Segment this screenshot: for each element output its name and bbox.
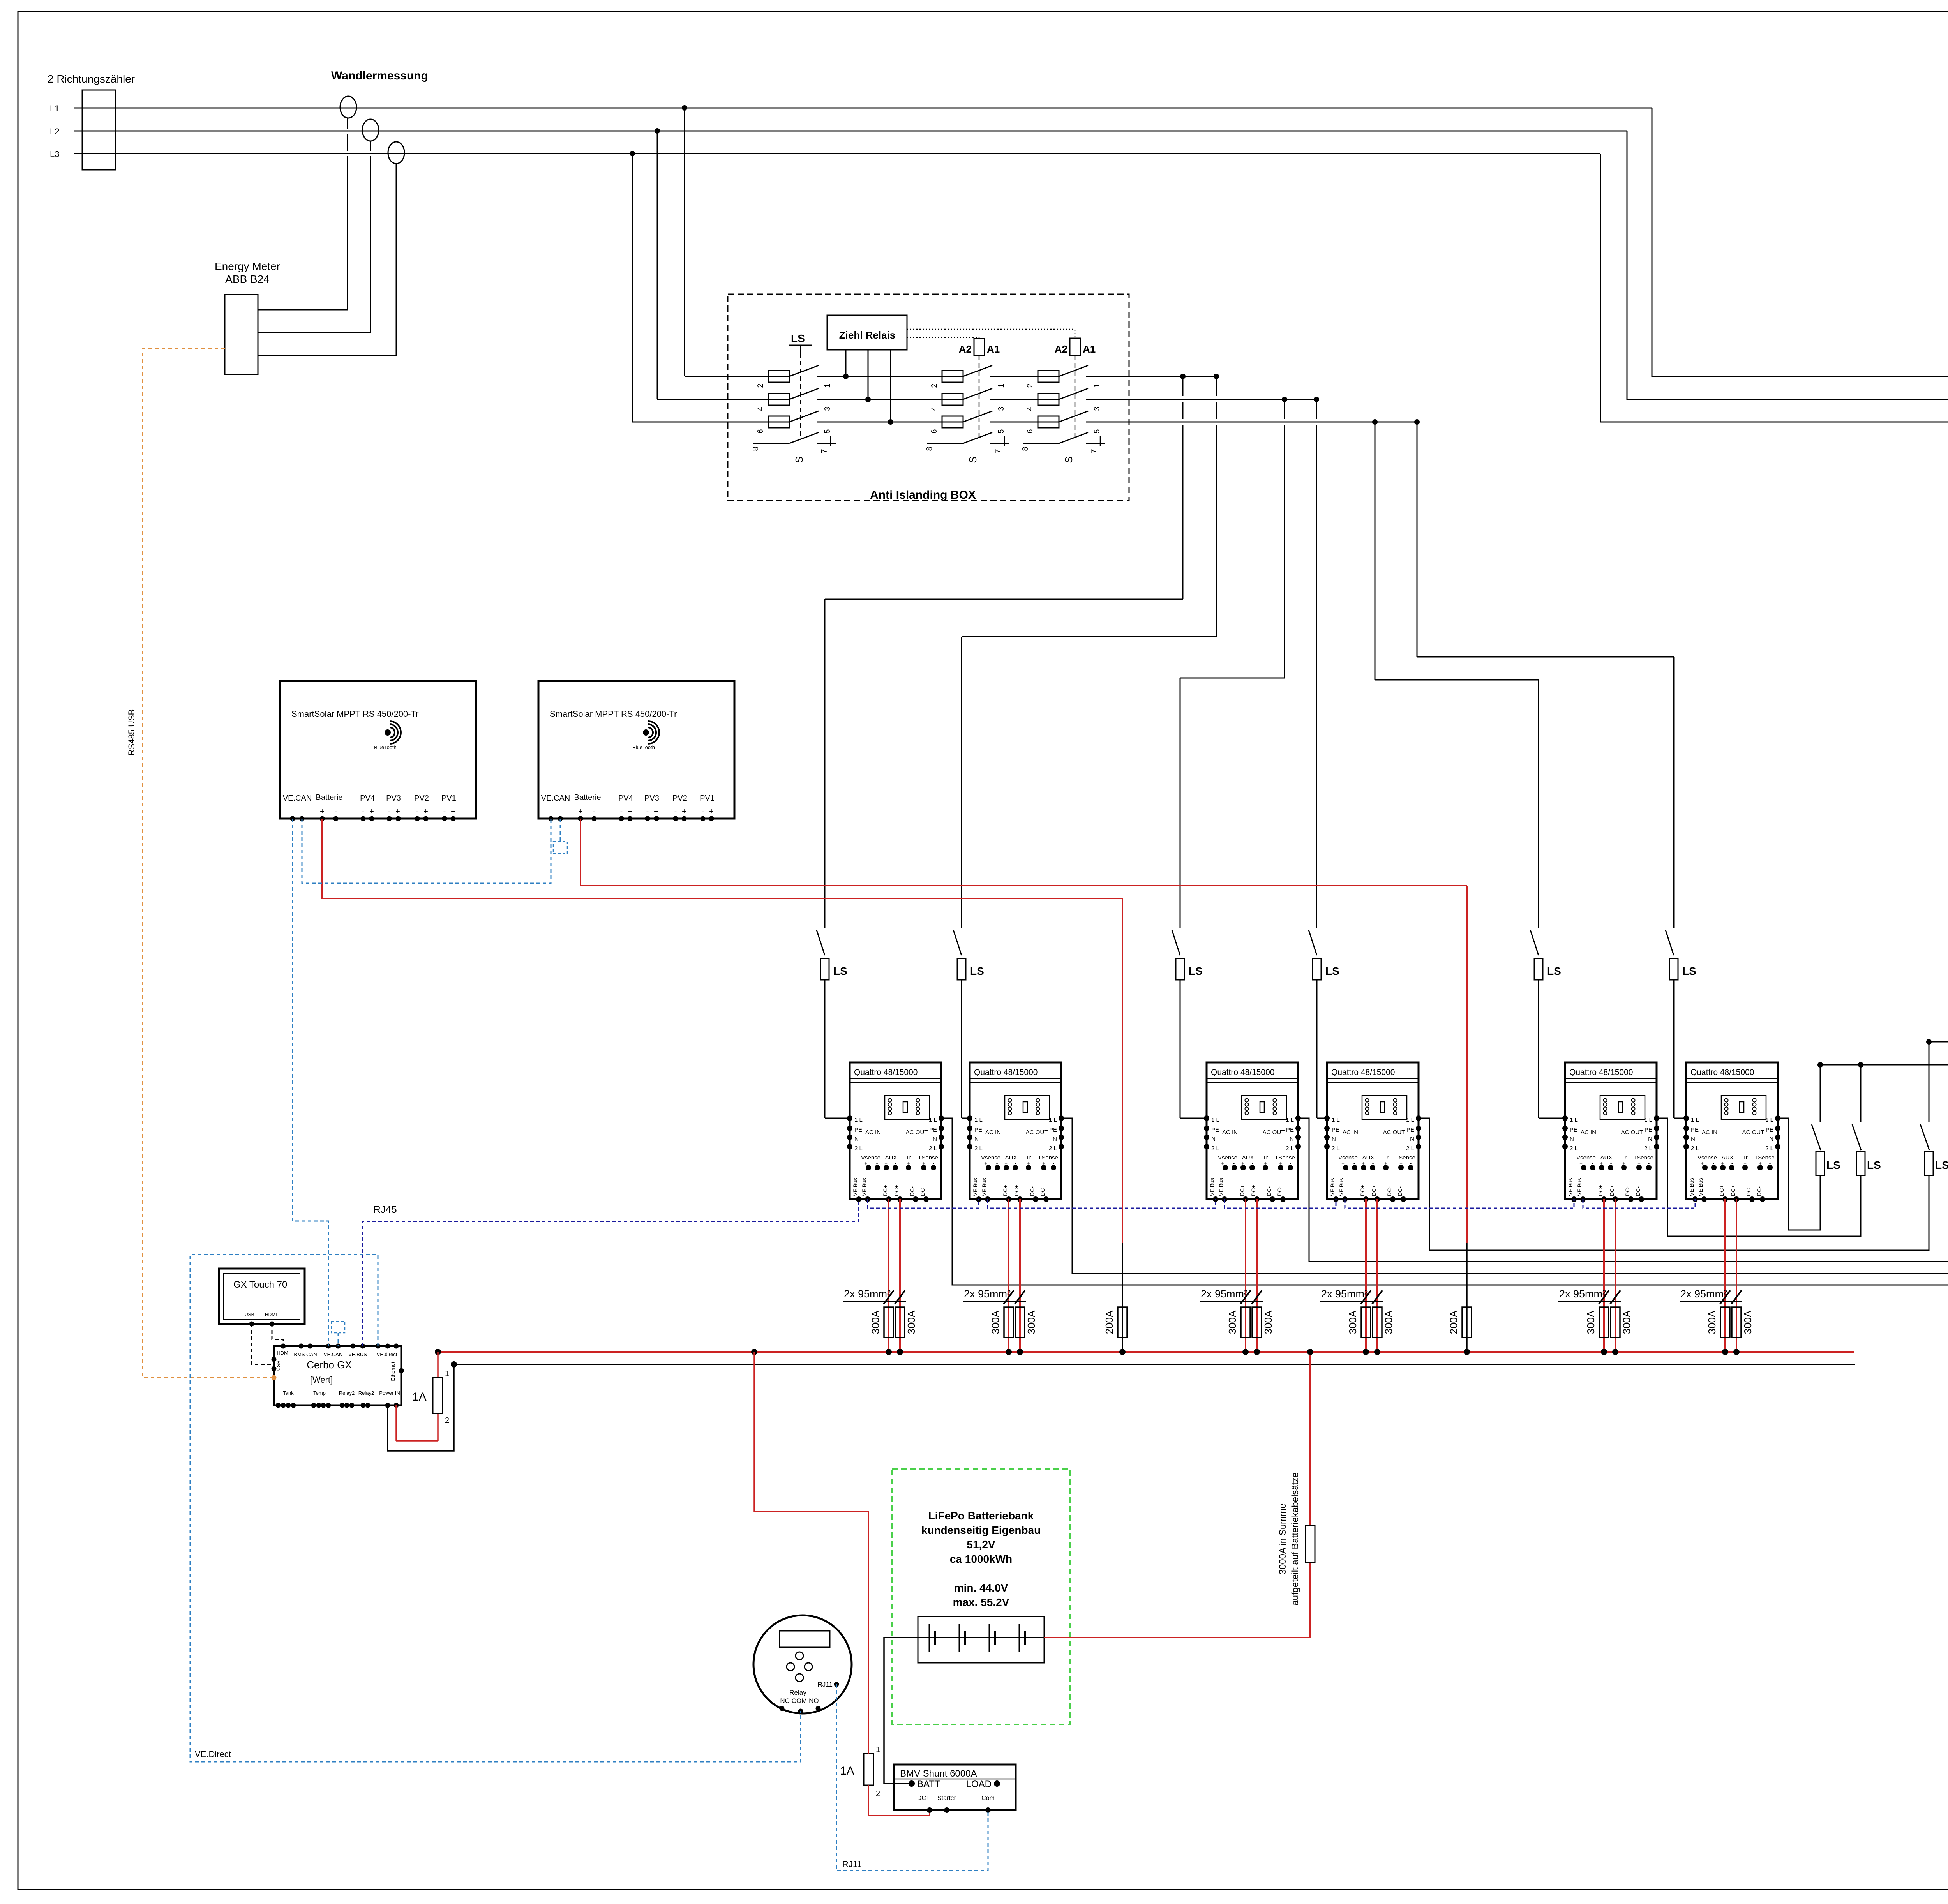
svg-text:5: 5 — [997, 429, 1006, 433]
svg-text:2 L: 2 L — [1765, 1145, 1773, 1152]
node junction U4 on AC-out bus — [1926, 1039, 1932, 1045]
svg-text:VE.Bus: VE.Bus — [1209, 1178, 1215, 1196]
battery plates — [929, 1624, 930, 1652]
svg-text:HDMI: HDMI — [265, 1312, 277, 1317]
svg-text:VE.Bus: VE.Bus — [1689, 1178, 1695, 1196]
svg-text:DC+: DC+ — [1239, 1185, 1245, 1196]
svg-text:N: N — [1053, 1136, 1057, 1142]
svg-text:VE.BUS: VE.BUS — [348, 1352, 367, 1357]
wire CT2 to energy meter — [370, 141, 371, 151]
svg-text:PV3: PV3 — [386, 794, 401, 803]
svg-text:VE.Bus: VE.Bus — [852, 1178, 858, 1196]
svg-text:RJ45: RJ45 — [373, 1203, 397, 1215]
svg-text:6: 6 — [930, 429, 939, 433]
U5 bottom pins — [1571, 1196, 1577, 1202]
svg-text:2x 95mm²: 2x 95mm² — [1680, 1288, 1727, 1300]
switch blade pole 3 — [963, 388, 992, 399]
svg-text:Temp: Temp — [313, 1390, 326, 1396]
svg-text:Quattro 48/15000: Quattro 48/15000 — [1211, 1068, 1274, 1077]
svg-text:LOAD: LOAD — [966, 1779, 992, 1789]
svg-text:N: N — [933, 1136, 937, 1142]
svg-text:Quattro 48/15000: Quattro 48/15000 — [1690, 1068, 1754, 1077]
svg-text:3: 3 — [997, 406, 1006, 411]
svg-text:VE.Bus: VE.Bus — [981, 1178, 987, 1196]
svg-text:N: N — [1290, 1136, 1294, 1142]
svg-text:Batterie: Batterie — [574, 793, 601, 802]
fuse 3000A — [1306, 1526, 1315, 1562]
node junction L2 to anti islanding — [655, 128, 660, 134]
breaker LS blade at x3949 — [1530, 930, 1539, 955]
svg-text:VE.Bus: VE.Bus — [1338, 1178, 1345, 1196]
switch blade pole 3 — [789, 388, 819, 399]
svg-text:TSense: TSense — [1038, 1154, 1058, 1161]
svg-text:+: + — [392, 1395, 395, 1401]
svg-text:300A: 300A — [1347, 1310, 1359, 1334]
node 200A#2 bus junction — [1464, 1349, 1470, 1355]
svg-text:A2: A2 — [1055, 343, 1068, 355]
svg-text:aufgeteilt auf Batteriekabelsä: aufgeteilt auf Batteriekabelsätze — [1290, 1472, 1300, 1606]
svg-text:-: - — [620, 807, 623, 816]
switch blade pole 5 — [789, 411, 819, 422]
breaker LS fuse at x2468 — [957, 958, 966, 980]
svg-text:max. 55.2V: max. 55.2V — [953, 1596, 1009, 1608]
svg-text:PE: PE — [1049, 1127, 1057, 1133]
svg-text:1A: 1A — [412, 1391, 427, 1403]
VE.CAN terminator at Cerbo — [338, 1333, 339, 1346]
aux contact pole 8 lead — [927, 443, 963, 444]
node junction DC+ for Cerbo — [435, 1349, 441, 1355]
svg-text:+: + — [320, 807, 325, 816]
svg-text:L2: L2 — [50, 127, 59, 136]
U2 bottom pins — [976, 1196, 981, 1202]
svg-text:7: 7 — [1090, 449, 1098, 453]
svg-text:3: 3 — [1093, 406, 1101, 411]
svg-text:PE: PE — [1645, 1127, 1652, 1133]
svg-text:Anti Islanding BOX: Anti Islanding BOX — [870, 489, 976, 501]
wire shunt BATT to battery — [884, 1638, 918, 1784]
svg-text:GX Touch 70: GX Touch 70 — [233, 1279, 287, 1290]
svg-text:DC+: DC+ — [1013, 1185, 1020, 1196]
svg-text:PE: PE — [1332, 1127, 1339, 1133]
svg-text:+: + — [864, 1160, 867, 1166]
svg-text:AC OUT: AC OUT — [1263, 1129, 1285, 1136]
U5 AC IN pins — [1562, 1115, 1568, 1121]
wire anti-islanding row 2 — [657, 399, 789, 400]
aux pole 7 tick — [1100, 436, 1101, 446]
svg-text:2: 2 — [930, 383, 939, 388]
fuse 300A b U3 — [1252, 1307, 1262, 1338]
svg-text:DC-: DC- — [1397, 1186, 1403, 1196]
wire Ziehl leg 3 — [890, 350, 891, 422]
svg-text:DC-: DC- — [1745, 1186, 1752, 1196]
svg-text:HDMI: HDMI — [277, 1350, 289, 1356]
svg-text:LS: LS — [1189, 965, 1203, 977]
svg-text:4: 4 — [1026, 406, 1034, 411]
fuse pole 4 of contactor at x1972 — [768, 394, 789, 405]
node junction row1 feed Quattro 1 — [1180, 374, 1186, 379]
U4 AC OUT pins — [1416, 1115, 1421, 1121]
svg-text:DC-: DC- — [1039, 1186, 1046, 1196]
wire CT1 to energy meter — [347, 118, 348, 129]
svg-text:6: 6 — [1026, 429, 1034, 433]
svg-text:200A: 200A — [1103, 1310, 1115, 1334]
node junction L3 to anti islanding — [630, 151, 635, 156]
svg-text:-: - — [646, 807, 649, 816]
svg-text:Relay2: Relay2 — [339, 1390, 355, 1396]
svg-text:6: 6 — [756, 429, 765, 433]
fuse 300A a U6 — [1720, 1307, 1730, 1338]
svg-text:1 L: 1 L — [1332, 1117, 1340, 1123]
wire DC- busbar — [454, 1364, 1855, 1365]
svg-text:S: S — [967, 456, 979, 463]
svg-text:N: N — [1332, 1136, 1336, 1142]
wire battery+ to DC bus via 3000A fuse — [1044, 1637, 1310, 1638]
svg-text:2: 2 — [756, 383, 765, 388]
dotted control wire Ziehl to contactor K3 coil — [907, 329, 1075, 338]
fuse 300A b U5 — [1611, 1307, 1620, 1338]
switch blade pole 1 — [963, 365, 992, 376]
svg-text:AC IN: AC IN — [985, 1129, 1001, 1136]
svg-text:DC+: DC+ — [1609, 1185, 1615, 1196]
svg-text:Com: Com — [981, 1795, 995, 1802]
breaker LS AC-out of U5 — [1860, 1065, 1862, 1122]
svg-text:1: 1 — [445, 1369, 449, 1378]
svg-text:ABB B24: ABB B24 — [225, 273, 270, 285]
svg-text:PV2: PV2 — [414, 794, 429, 803]
contactor K2 coil — [974, 339, 985, 355]
svg-text:ca 1000kWh: ca 1000kWh — [950, 1553, 1012, 1565]
svg-text:1 L: 1 L — [1286, 1117, 1294, 1123]
node U6 DC+ bus junctions — [1722, 1349, 1728, 1355]
wire AC feed to Quattro 3 — [1284, 399, 1285, 419]
svg-text:2 L: 2 L — [1332, 1145, 1340, 1152]
svg-text:AC IN: AC IN — [1222, 1129, 1238, 1136]
wire MPPT1 battery+ to fuse — [322, 819, 1122, 898]
U1 AC OUT pins — [939, 1115, 944, 1121]
inverter U6 Quattro 48/15000 box — [1686, 1062, 1778, 1199]
svg-text:BlueTooth: BlueTooth — [632, 745, 655, 750]
svg-text:1 L: 1 L — [1644, 1117, 1652, 1123]
fuse pole 4 of contactor at x2418 — [942, 394, 963, 405]
aux pole 7 tick — [1004, 436, 1005, 446]
svg-text:+: + — [709, 807, 714, 816]
svg-text:2 L: 2 L — [1286, 1145, 1294, 1152]
fuse pole 6 of contactor at x2418 — [942, 416, 963, 428]
shunt LOAD terminal — [994, 1780, 1000, 1787]
svg-text:DC+: DC+ — [917, 1795, 930, 1802]
wire AC feed to Quattro 2 — [1216, 376, 1217, 396]
svg-text:1: 1 — [997, 383, 1006, 388]
svg-text:2 L: 2 L — [1644, 1145, 1652, 1152]
svg-text:Quattro 48/15000: Quattro 48/15000 — [1569, 1068, 1633, 1077]
breaker LS blade at x2117 — [817, 930, 825, 955]
svg-text:N: N — [1410, 1136, 1414, 1142]
svg-text:N: N — [854, 1136, 859, 1142]
charger MPPT1 SmartSolar box — [280, 681, 476, 819]
svg-text:2x 95mm²: 2x 95mm² — [844, 1288, 891, 1300]
svg-text:PE: PE — [854, 1127, 862, 1133]
fuse 300A b U1 — [895, 1307, 905, 1338]
svg-text:PE: PE — [1211, 1127, 1219, 1133]
svg-text:VE.Bus: VE.Bus — [861, 1178, 867, 1196]
svg-text:4: 4 — [930, 406, 939, 411]
svg-text:+: + — [1579, 1160, 1583, 1166]
svg-text:PV1: PV1 — [441, 794, 456, 803]
fuse 200A #1 — [1118, 1307, 1127, 1338]
svg-text:RJ11: RJ11 — [842, 1859, 862, 1869]
svg-text:A1: A1 — [1083, 343, 1096, 355]
svg-text:PV1: PV1 — [700, 794, 715, 803]
battery box LiFePo outline — [892, 1469, 1070, 1724]
svg-text:VE.Bus: VE.Bus — [1567, 1178, 1574, 1196]
svg-text:300A: 300A — [1025, 1310, 1037, 1334]
svg-text:VE.Bus: VE.Bus — [1697, 1178, 1704, 1196]
svg-text:DC-: DC- — [1756, 1186, 1762, 1196]
svg-text:DC-: DC- — [1635, 1186, 1641, 1196]
svg-text:2: 2 — [876, 1789, 880, 1798]
aux contact pole 7 lead — [817, 443, 836, 444]
svg-text:RS485 USB: RS485 USB — [127, 709, 136, 756]
svg-text:TSense: TSense — [1754, 1154, 1775, 1161]
monitor BMV round display — [753, 1615, 852, 1713]
svg-text:DC+: DC+ — [1597, 1185, 1604, 1196]
wire LS to Quattro 5 AC-in pin — [1538, 980, 1539, 1118]
svg-text:Tank: Tank — [283, 1390, 294, 1396]
svg-text:-: - — [593, 807, 596, 816]
node junction U6 on AC-out bus — [1817, 1062, 1823, 1068]
svg-text:Quattro 48/15000: Quattro 48/15000 — [974, 1068, 1038, 1077]
fuse 300A b U4 — [1373, 1307, 1382, 1338]
wire VE.Bus daisy chain — [868, 1199, 979, 1208]
svg-text:TSense: TSense — [1395, 1154, 1415, 1161]
svg-text:5: 5 — [1093, 429, 1101, 433]
node junction DC- for Cerbo — [451, 1361, 457, 1368]
svg-text:SmartSolar MPPT RS 450/200-Tr: SmartSolar MPPT RS 450/200-Tr — [550, 709, 677, 719]
aux contact pole 8 lead — [1023, 443, 1059, 444]
svg-text:+: + — [682, 807, 686, 816]
svg-text:BMS CAN: BMS CAN — [294, 1352, 317, 1357]
wire AC-out bus L2 — [1929, 1041, 1948, 1043]
svg-text:N: N — [1769, 1136, 1773, 1142]
svg-text:VE.direct: VE.direct — [377, 1352, 397, 1357]
svg-text:2 L: 2 L — [974, 1145, 983, 1152]
wire U4 DC+ leads — [1365, 1199, 1367, 1352]
controller Cerbo GX box — [274, 1346, 401, 1405]
Cerbo left USB ports — [272, 1357, 277, 1362]
svg-text:DC+: DC+ — [893, 1185, 900, 1196]
wire LS to Quattro 1 AC-in pin — [824, 980, 826, 1118]
fuse 300A a U2 — [1004, 1307, 1013, 1338]
svg-text:2 L: 2 L — [1691, 1145, 1699, 1152]
svg-text:L1: L1 — [50, 104, 59, 113]
wire Cerbo power - — [388, 1364, 454, 1451]
U6 bottom pins — [1692, 1196, 1698, 1202]
svg-text:300A: 300A — [1585, 1310, 1597, 1334]
svg-text:1 L: 1 L — [929, 1117, 937, 1123]
node junction U5 on AC-out bus — [1858, 1062, 1863, 1068]
svg-text:PE: PE — [1570, 1127, 1577, 1133]
wire L1 drop to anti islanding — [684, 108, 685, 376]
svg-text:8: 8 — [752, 446, 760, 451]
svg-text:DC+: DC+ — [1719, 1185, 1725, 1196]
node junction L1 to anti islanding — [682, 105, 687, 111]
svg-text:2: 2 — [1026, 383, 1034, 388]
U2 AC IN pins — [967, 1115, 972, 1121]
node U2 DC+ bus junctions — [1006, 1349, 1012, 1355]
wire L1 grid — [74, 108, 1652, 109]
svg-text:N: N — [1570, 1136, 1574, 1142]
fuse pole 6 of contactor at x1972 — [768, 416, 789, 428]
svg-text:AC OUT: AC OUT — [1026, 1129, 1048, 1136]
svg-text:1 L: 1 L — [1406, 1117, 1414, 1123]
svg-text:-: - — [362, 807, 365, 816]
svg-text:Cerbo GX: Cerbo GX — [307, 1359, 352, 1371]
U1 bottom pins — [856, 1196, 861, 1202]
wire U4 AC-out to bus column — [1419, 1118, 1929, 1250]
shunt 1A fuse — [864, 1754, 873, 1785]
U3 AC IN pins — [1204, 1115, 1209, 1121]
svg-text:+: + — [1701, 1160, 1704, 1166]
wire L3 grid — [74, 153, 1600, 154]
svg-text:VE.CAN: VE.CAN — [283, 794, 312, 803]
svg-text:300A: 300A — [1621, 1310, 1632, 1334]
inverter U2 Quattro 48/15000 box — [970, 1062, 1061, 1199]
svg-text:+: + — [578, 807, 583, 816]
wire Ziehl leg 1 — [845, 350, 847, 376]
svg-text:2x 95mm²: 2x 95mm² — [964, 1288, 1011, 1300]
svg-text:300A: 300A — [1706, 1310, 1718, 1334]
svg-text:300A: 300A — [905, 1310, 917, 1334]
svg-text:DC-: DC- — [909, 1186, 915, 1196]
fuse 300A a U1 — [884, 1307, 893, 1338]
MPPT1 bluetooth icon — [385, 729, 391, 736]
svg-text:200A: 200A — [1448, 1310, 1459, 1334]
svg-text:LS: LS — [970, 965, 984, 977]
breaker LS fuse at x2117 — [820, 958, 829, 980]
svg-text:USB: USB — [275, 1361, 281, 1371]
svg-text:Wandlermessung: Wandlermessung — [331, 69, 428, 82]
svg-text:DC+: DC+ — [1371, 1185, 1377, 1196]
Cerbo top ports — [281, 1344, 286, 1349]
CT transformer T3 on L3 — [388, 142, 404, 164]
svg-text:LS: LS — [791, 332, 805, 344]
wire AC feed to Quattro 6 — [1417, 422, 1418, 657]
wire AC feed to Quattro 4 — [1316, 399, 1317, 419]
contactor K2 linkage — [979, 355, 980, 439]
switch blade pole 1 — [1059, 365, 1088, 376]
BMV relay pins — [780, 1706, 785, 1711]
svg-text:AC OUT: AC OUT — [1383, 1129, 1405, 1136]
svg-text:BlueTooth: BlueTooth — [374, 745, 397, 750]
wire AC-out bus L3 — [1820, 1064, 1948, 1066]
fuse 300A a U4 — [1361, 1307, 1371, 1338]
svg-text:Relay: Relay — [789, 1689, 806, 1696]
svg-text:1 L: 1 L — [974, 1117, 983, 1123]
wire GX Touch USB to Cerbo — [252, 1324, 274, 1364]
svg-text:2 Richtungszähler: 2 Richtungszähler — [48, 73, 135, 85]
anti islanding box outline — [728, 294, 1129, 501]
svg-text:PE: PE — [974, 1127, 982, 1133]
svg-text:USB: USB — [245, 1312, 254, 1317]
wire RJ11 BMV monitor to shunt — [836, 1684, 988, 1870]
breaker LS fuse at x3029 — [1176, 958, 1184, 980]
BMV buttons — [796, 1652, 803, 1660]
svg-text:VE.Bus: VE.Bus — [972, 1178, 978, 1196]
svg-text:AC OUT: AC OUT — [1621, 1129, 1643, 1136]
node junction row2 feed Quattro 4 — [1314, 397, 1319, 402]
wire L2 step-down to UV bus — [1627, 131, 1948, 399]
svg-text:7: 7 — [994, 449, 1002, 453]
svg-text:1 L: 1 L — [1691, 1117, 1699, 1123]
svg-text:VE.CAN: VE.CAN — [541, 794, 570, 803]
svg-text:AC IN: AC IN — [1343, 1129, 1358, 1136]
node U4 DC+ bus junctions — [1363, 1349, 1369, 1355]
fuse 300A b U6 — [1732, 1307, 1741, 1338]
svg-text:A1: A1 — [987, 343, 1000, 355]
node U1 DC+ bus junctions — [886, 1349, 892, 1355]
svg-text:300A: 300A — [990, 1310, 1001, 1334]
wire U3 AC-out to bus column — [1298, 1118, 1948, 1262]
inverter U5 Quattro 48/15000 box — [1565, 1062, 1657, 1199]
svg-text:DC+: DC+ — [1359, 1185, 1366, 1196]
svg-text:N: N — [1211, 1136, 1216, 1142]
wire L3 drop to anti islanding — [632, 154, 633, 422]
svg-text:TSense: TSense — [1633, 1154, 1653, 1161]
wire DC+ to shunt via 1A fuse — [751, 1349, 757, 1355]
svg-text:-: - — [443, 807, 446, 816]
wire VE.CAN MPPT1 to Cerbo — [293, 819, 328, 1346]
svg-text:NC COM NO: NC COM NO — [780, 1697, 819, 1705]
Cerbo ethernet port — [399, 1368, 404, 1373]
wire VE.CAN MPPT1 to MPPT2 — [302, 819, 551, 883]
svg-text:Batterie: Batterie — [316, 793, 343, 802]
svg-text:BATT: BATT — [917, 1779, 940, 1789]
wire L1 step-down to UV bus — [1652, 108, 1948, 376]
U5 AC OUT pins — [1654, 1115, 1659, 1121]
U3 AC OUT pins — [1295, 1115, 1301, 1121]
inverter U4 Quattro 48/15000 box — [1327, 1062, 1419, 1199]
svg-text:kundenseitig Eigenbau: kundenseitig Eigenbau — [921, 1524, 1041, 1536]
svg-text:PE: PE — [1691, 1127, 1699, 1133]
svg-text:8: 8 — [925, 446, 934, 451]
wire U3 DC+ leads — [1245, 1199, 1246, 1352]
svg-text:2x 95mm²: 2x 95mm² — [1201, 1288, 1247, 1300]
breaker LS blade at x2468 — [953, 930, 962, 955]
svg-text:VE.CAN: VE.CAN — [324, 1352, 342, 1357]
svg-text:DC-: DC- — [1266, 1186, 1272, 1196]
wire VE.direct Cerbo to BMV monitor — [190, 1255, 801, 1762]
svg-text:-: - — [388, 807, 391, 816]
wire anti-islanding row 1 — [685, 376, 789, 377]
svg-text:AC IN: AC IN — [1702, 1129, 1717, 1136]
wire U1 AC-out to bus column — [941, 1118, 1948, 1285]
svg-text:5: 5 — [823, 429, 832, 433]
wire U5 AC-out to bus column — [1657, 1118, 1861, 1236]
svg-text:S: S — [1063, 456, 1075, 463]
wire U6 DC+ leads — [1724, 1199, 1726, 1352]
svg-text:Relay2: Relay2 — [358, 1390, 374, 1396]
svg-text:SmartSolar MPPT RS 450/200-Tr: SmartSolar MPPT RS 450/200-Tr — [291, 709, 418, 719]
svg-text:AC OUT: AC OUT — [1742, 1129, 1764, 1136]
svg-text:N: N — [1648, 1136, 1652, 1142]
wire L2 grid — [74, 131, 1627, 132]
BMV display window — [780, 1631, 830, 1647]
Cerbo RS485 port — [272, 1375, 277, 1380]
U2 AC OUT pins — [1059, 1115, 1064, 1121]
svg-text:1A: 1A — [840, 1765, 854, 1777]
svg-text:Ethernet: Ethernet — [390, 1362, 396, 1381]
svg-text:LS: LS — [1682, 965, 1696, 977]
